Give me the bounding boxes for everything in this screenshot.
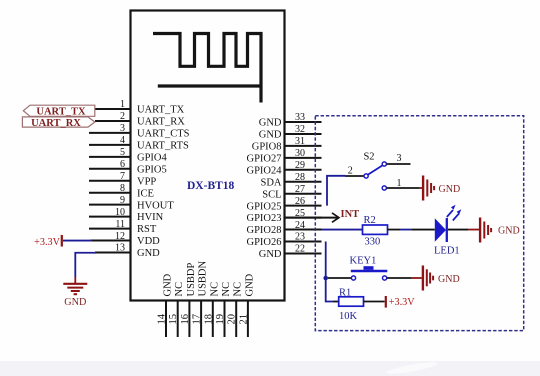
svg-text:GND: GND <box>438 274 460 285</box>
svg-text:UART_TX: UART_TX <box>137 105 185 116</box>
svg-text:GND: GND <box>259 118 282 129</box>
svg-text:VPP: VPP <box>137 176 156 187</box>
svg-text:SCL: SCL <box>262 189 281 200</box>
svg-text:+3.3V: +3.3V <box>389 297 415 308</box>
svg-text:24: 24 <box>295 220 305 231</box>
svg-text:UART_RTS: UART_RTS <box>137 140 189 151</box>
svg-text:1: 1 <box>397 178 402 189</box>
svg-text:UART_RX: UART_RX <box>31 118 81 129</box>
svg-text:5: 5 <box>120 147 125 158</box>
svg-text:GPIO8: GPIO8 <box>252 142 282 153</box>
svg-text:GND: GND <box>244 273 255 296</box>
svg-text:UART_RX: UART_RX <box>137 117 185 128</box>
svg-text:19: 19 <box>215 314 226 325</box>
svg-text:12: 12 <box>115 231 125 242</box>
svg-text:27: 27 <box>295 184 305 195</box>
svg-text:23: 23 <box>295 232 305 243</box>
svg-text:22: 22 <box>295 244 305 255</box>
svg-text:+3.3V: +3.3V <box>34 237 60 248</box>
svg-text:16: 16 <box>180 314 191 325</box>
svg-text:GPIO5: GPIO5 <box>137 164 167 175</box>
svg-text:1: 1 <box>120 99 125 110</box>
svg-text:GND: GND <box>137 248 160 259</box>
svg-text:LED1: LED1 <box>434 246 460 257</box>
svg-text:30: 30 <box>295 148 305 159</box>
svg-text:GND: GND <box>163 273 174 296</box>
svg-text:29: 29 <box>295 160 305 171</box>
svg-text:SDA: SDA <box>260 177 281 188</box>
svg-text:DX-BT18: DX-BT18 <box>187 180 235 192</box>
svg-text:NC: NC <box>209 282 220 297</box>
svg-text:6: 6 <box>120 159 125 170</box>
svg-text:20: 20 <box>227 314 238 325</box>
svg-text:UART_TX: UART_TX <box>36 107 86 118</box>
svg-text:GND: GND <box>64 297 86 308</box>
svg-text:17: 17 <box>192 314 203 325</box>
svg-text:R2: R2 <box>364 215 376 226</box>
svg-text:330: 330 <box>365 236 381 247</box>
svg-text:GND: GND <box>259 249 282 260</box>
svg-text:13: 13 <box>115 243 125 254</box>
svg-text:10K: 10K <box>339 311 358 322</box>
svg-text:HVIN: HVIN <box>137 212 164 223</box>
svg-text:NC: NC <box>174 282 185 297</box>
svg-text:USBDN: USBDN <box>198 260 209 296</box>
svg-text:21: 21 <box>238 314 249 325</box>
svg-text:GPIO28: GPIO28 <box>246 225 281 236</box>
svg-text:9: 9 <box>120 195 125 206</box>
svg-text:NC: NC <box>221 282 232 297</box>
svg-text:UART_CTS: UART_CTS <box>137 129 190 140</box>
svg-text:GND: GND <box>498 226 520 237</box>
svg-text:11: 11 <box>115 219 125 230</box>
svg-text:3: 3 <box>397 153 402 164</box>
svg-text:S2: S2 <box>363 152 374 163</box>
svg-text:15: 15 <box>168 314 179 325</box>
svg-text:USBDP: USBDP <box>186 262 197 296</box>
svg-text:7: 7 <box>120 171 125 182</box>
svg-text:HVOUT: HVOUT <box>137 200 174 211</box>
svg-text:GPIO24: GPIO24 <box>246 165 282 176</box>
svg-text:14: 14 <box>157 313 168 324</box>
svg-text:NC: NC <box>233 282 244 297</box>
svg-text:INT: INT <box>341 209 360 220</box>
svg-text:KEY1: KEY1 <box>350 255 377 266</box>
svg-text:2: 2 <box>120 111 125 122</box>
svg-text:2: 2 <box>348 166 353 177</box>
svg-text:VDD: VDD <box>137 236 160 247</box>
svg-text:33: 33 <box>295 112 305 123</box>
svg-text:26: 26 <box>295 196 305 207</box>
svg-text:GPIO25: GPIO25 <box>246 201 281 212</box>
svg-text:18: 18 <box>203 314 214 325</box>
svg-text:GND: GND <box>439 184 461 195</box>
svg-text:R1: R1 <box>339 287 351 298</box>
svg-text:8: 8 <box>120 183 125 194</box>
svg-text:GPIO23: GPIO23 <box>246 213 281 224</box>
svg-text:GPIO27: GPIO27 <box>246 153 281 164</box>
svg-text:ICE: ICE <box>137 188 154 199</box>
svg-text:10: 10 <box>115 207 125 218</box>
svg-text:GPIO4: GPIO4 <box>137 152 168 163</box>
svg-text:GPIO26: GPIO26 <box>246 237 281 248</box>
svg-text:GND: GND <box>259 130 282 141</box>
svg-text:32: 32 <box>295 124 305 135</box>
svg-text:4: 4 <box>120 135 125 146</box>
svg-text:31: 31 <box>295 136 305 147</box>
svg-text:3: 3 <box>120 123 125 134</box>
svg-text:RST: RST <box>137 224 157 235</box>
svg-text:28: 28 <box>295 172 305 183</box>
